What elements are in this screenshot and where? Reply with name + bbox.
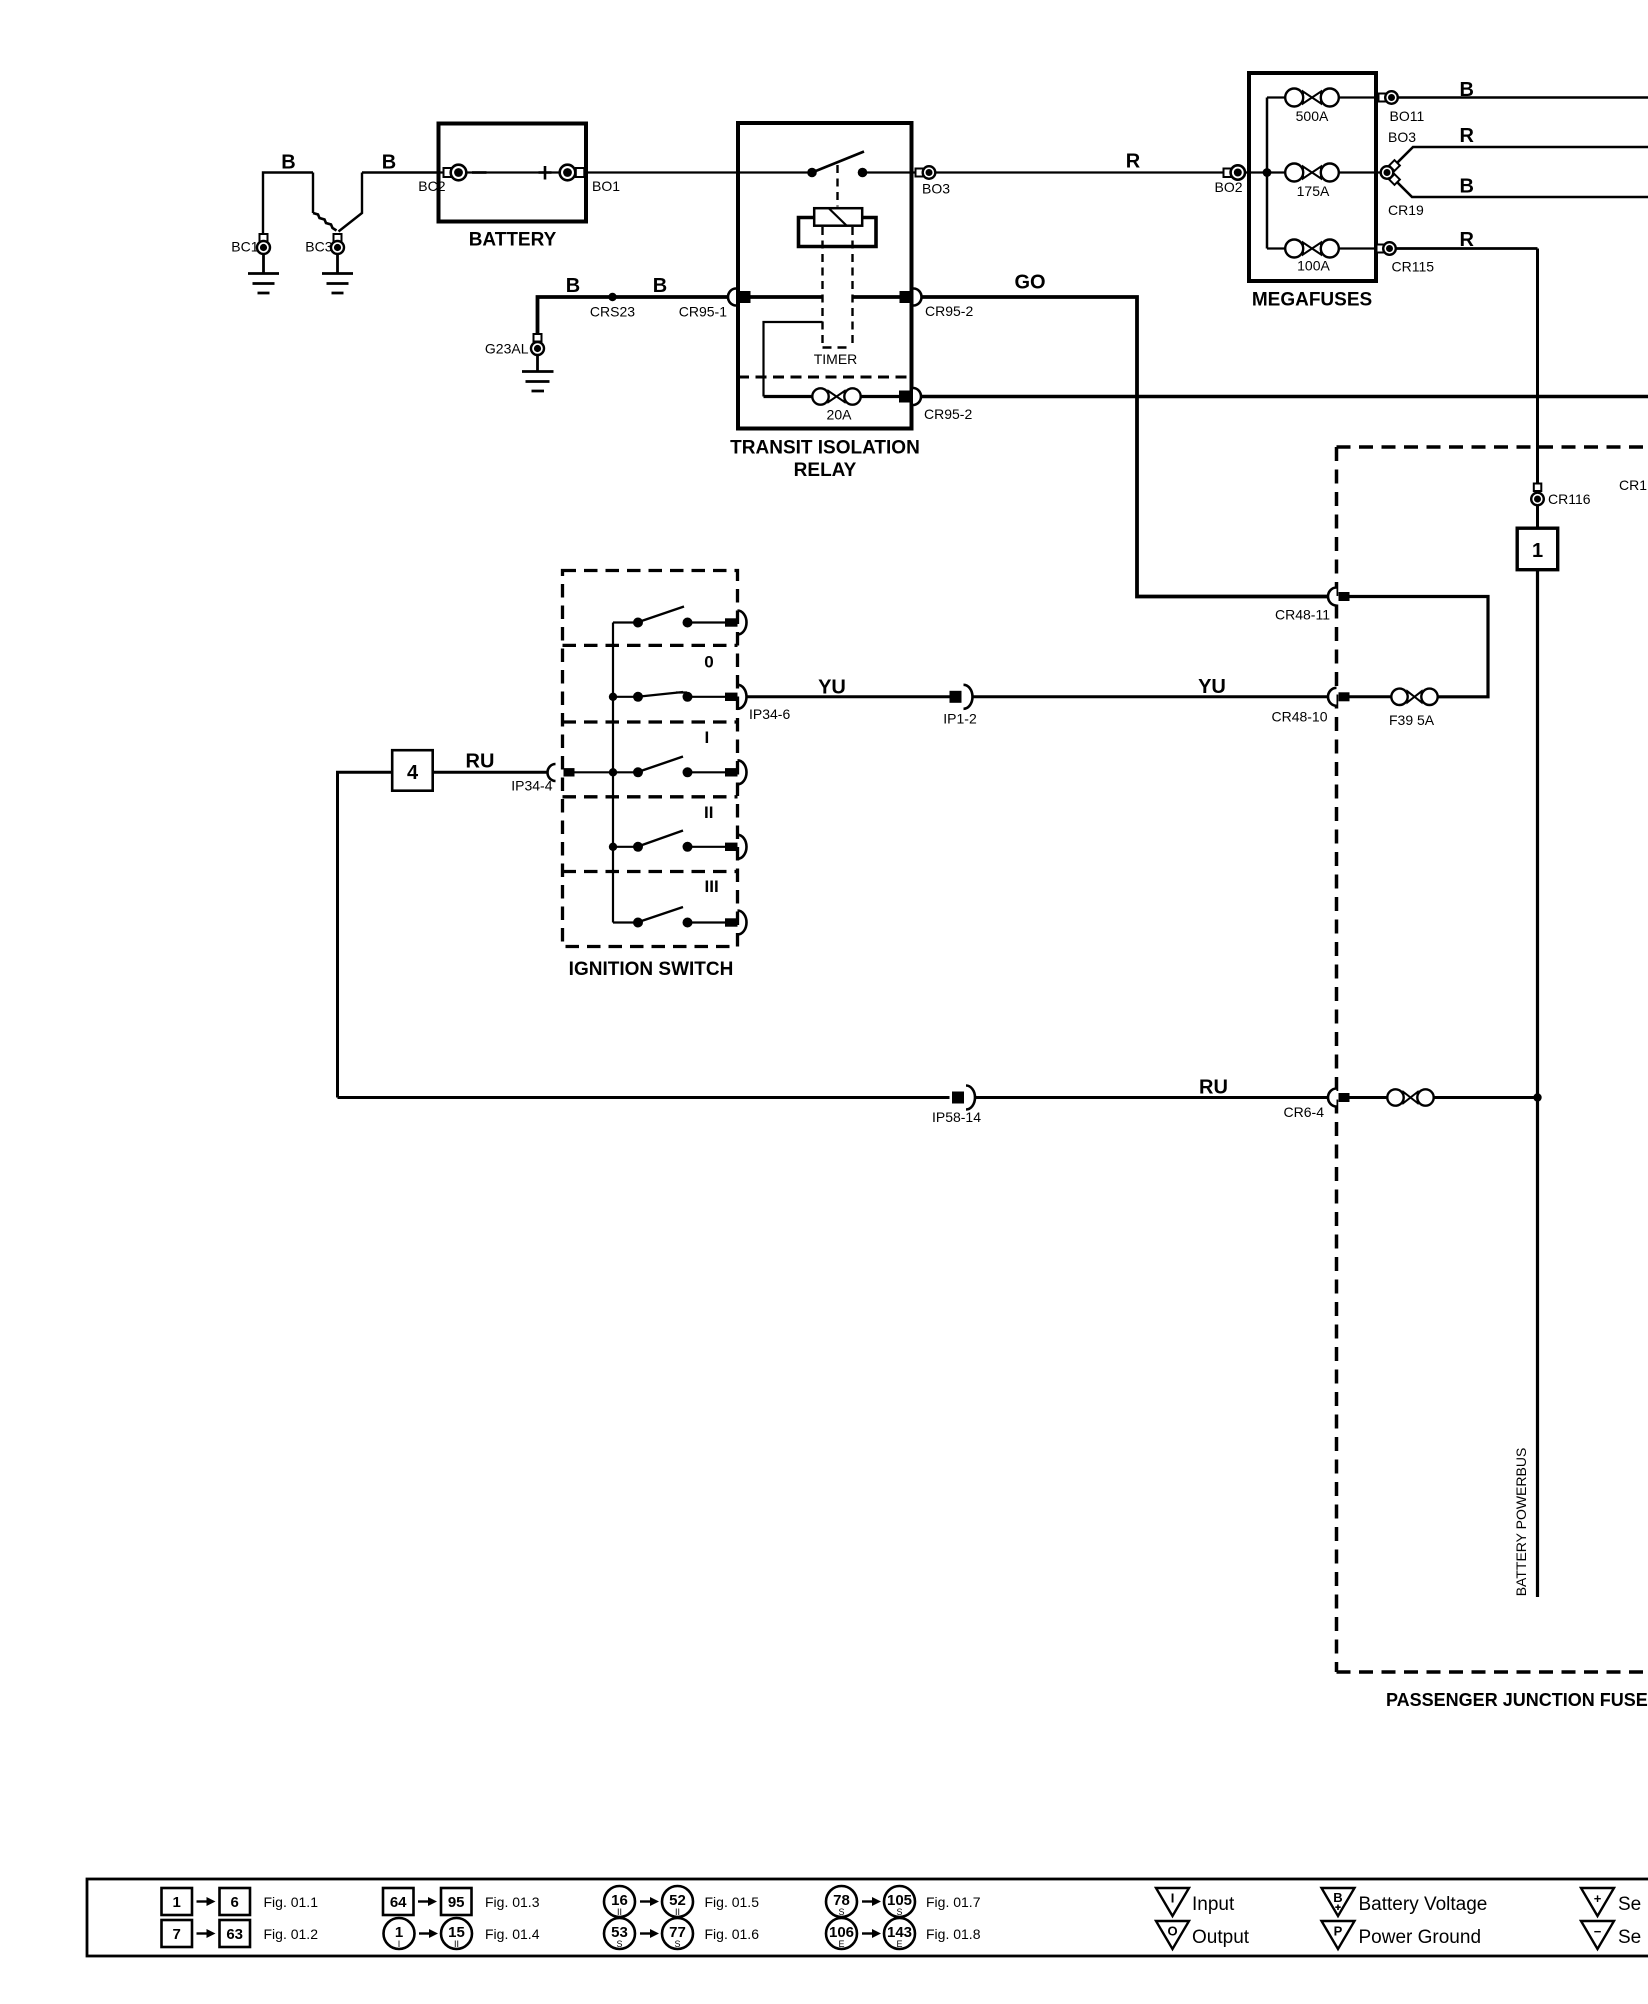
svg-text:S: S — [838, 1907, 844, 1917]
label IP1-2 — [943, 711, 977, 727]
svg-text:BO3: BO3 — [922, 181, 950, 197]
ignition common vertical wire — [612, 623, 614, 923]
relay yoke — [799, 218, 877, 247]
wire CR6-4 to fuse — [1350, 1096, 1388, 1099]
legend text Power Ground — [1359, 1927, 1482, 1948]
ignition row5 wires — [613, 921, 726, 923]
label BO11 — [1390, 108, 1425, 124]
svg-text:500A: 500A — [1296, 108, 1329, 124]
svg-text:S: S — [616, 1939, 622, 1949]
wire B BO11 to right edge — [1398, 96, 1648, 99]
svg-text:S: S — [674, 1939, 680, 1949]
wire fuse to powerbus junction — [1434, 1096, 1538, 1099]
ignition switch dashed box — [563, 571, 738, 947]
wire YU IP1-2 to CR48-10 — [973, 695, 1328, 698]
legend circle 106 E — [826, 1918, 857, 1949]
wire label RU — [466, 751, 495, 773]
svg-text:Fig. 01.5: Fig. 01.5 — [705, 1894, 760, 1910]
legend symbol Battery Voltage — [1322, 1888, 1355, 1916]
svg-text:G23AL: G23AL — [485, 341, 529, 357]
node box 4 — [392, 750, 433, 791]
label BO2 — [1214, 179, 1242, 195]
svg-text:B: B — [653, 275, 667, 297]
legend square 7 — [162, 1920, 193, 1947]
svg-text:II: II — [675, 1907, 680, 1917]
wire bus to fuse 500A — [1267, 96, 1286, 98]
label BC3 — [305, 239, 332, 255]
relay dashed separator — [738, 376, 912, 379]
wire label GO — [1014, 272, 1045, 294]
svg-text:20A: 20A — [827, 407, 853, 423]
wire main BO1 to relay — [588, 171, 738, 173]
legend circle 16 II — [604, 1886, 635, 1917]
wire bus to fuse 100A — [1267, 247, 1286, 249]
ignition row4 wires — [613, 846, 726, 848]
wire label B — [1460, 176, 1474, 198]
svg-text:I: I — [705, 728, 710, 747]
svg-text:RU: RU — [466, 751, 495, 773]
node box 1 — [1517, 528, 1558, 570]
label CR48-11 — [1275, 607, 1330, 623]
connector CR116 ring — [1531, 484, 1544, 506]
label F39 5A — [1389, 712, 1435, 728]
svg-text:IP58-14: IP58-14 — [932, 1109, 981, 1125]
svg-text:B: B — [382, 152, 396, 174]
svg-text:Fig. 01.1: Fig. 01.1 — [264, 1894, 319, 1910]
legend square 6 — [220, 1888, 251, 1915]
svg-text:−: − — [1594, 1924, 1602, 1939]
wire B from battery BC2 to ground split — [339, 173, 439, 232]
label G23AL — [485, 341, 529, 357]
wire timer tap to 20A fuse — [764, 322, 823, 397]
svg-text:CR48-11: CR48-11 — [1275, 607, 1330, 623]
wire box4 left leg down — [338, 772, 392, 1097]
legend circle 52 II — [662, 1886, 693, 1917]
legend box — [87, 1879, 1648, 1956]
connector CR95-1 — [728, 289, 751, 306]
ground at BC3 — [322, 254, 353, 293]
legend circle 77 S — [662, 1918, 693, 1949]
svg-text:CR19: CR19 — [1388, 202, 1424, 218]
svg-text:Fig. 01.6: Fig. 01.6 — [705, 1926, 760, 1942]
svg-text:CRS23: CRS23 — [590, 304, 635, 320]
legend arrow — [418, 1897, 437, 1906]
legend text Battery Voltage — [1359, 1894, 1488, 1915]
svg-text:MEGAFUSES: MEGAFUSES — [1252, 290, 1372, 311]
wire CR48-10 to F39 — [1350, 695, 1392, 698]
ignition divider II — [563, 795, 738, 798]
label CR115 — [1392, 259, 1435, 275]
svg-text:64: 64 — [390, 1894, 407, 1911]
svg-text:63: 63 — [226, 1926, 243, 1943]
connector BO11 ring — [1379, 91, 1398, 104]
svg-text:1: 1 — [173, 1894, 181, 1911]
svg-text:7: 7 — [173, 1926, 181, 1943]
legend text Output — [1192, 1927, 1250, 1948]
megafuses internal bus — [1266, 98, 1269, 249]
battery box — [439, 124, 587, 222]
svg-text:1: 1 — [1532, 540, 1543, 562]
row4 contacts and blade — [633, 831, 693, 852]
wire battery powerbus vertical — [1536, 571, 1539, 1597]
svg-text:Fig. 01.3: Fig. 01.3 — [485, 1894, 540, 1910]
row5 contacts and blade — [633, 907, 693, 928]
wire timer to CR95-2 — [853, 295, 902, 299]
label II — [704, 803, 713, 822]
wire R CR115 to powerbus — [1396, 247, 1538, 250]
row3 connector right — [725, 760, 747, 784]
fuse 20A — [812, 388, 860, 404]
label IP34-6 — [749, 706, 790, 722]
row3 contacts and blade — [633, 757, 693, 778]
connector IP1-2 — [950, 685, 973, 709]
label CR19 — [1388, 202, 1424, 218]
plus sign — [539, 166, 552, 180]
wire inside battery BC2 to BO1 — [438, 171, 588, 173]
connector CR115 ring — [1377, 242, 1396, 255]
svg-text:175A: 175A — [1297, 183, 1330, 199]
svg-text:BO3: BO3 — [1388, 129, 1416, 145]
svg-text:B: B — [566, 275, 580, 297]
wire label B left — [281, 152, 295, 174]
svg-text:F39 5A: F39 5A — [1389, 712, 1435, 728]
svg-text:E: E — [838, 1939, 844, 1949]
ignition row2 wires — [613, 696, 726, 698]
legend circle 53 S — [604, 1918, 635, 1949]
svg-text:0: 0 — [704, 653, 713, 672]
legend circle 143 E — [884, 1918, 915, 1949]
connector IP34-4 — [548, 764, 575, 781]
minus sign — [472, 171, 487, 174]
ignition row1 wires — [613, 621, 726, 623]
timer dashed outline — [823, 227, 853, 348]
dashed link switch to coil — [836, 165, 838, 207]
svg-text:R: R — [1460, 125, 1475, 147]
wire to 20A fuse — [764, 395, 813, 398]
label I — [705, 728, 710, 747]
row1 contacts and blade — [633, 607, 693, 628]
svg-text:100A: 100A — [1297, 258, 1330, 274]
legend symbol Input — [1156, 1888, 1189, 1916]
ignition row3 wires — [575, 771, 726, 773]
connector BO3 ring — [916, 166, 936, 179]
svg-text:4: 4 — [407, 762, 419, 784]
svg-text:Fig. 01.8: Fig. 01.8 — [926, 1926, 981, 1942]
relay switch contact right — [858, 168, 868, 178]
svg-text:CR48-10: CR48-10 — [1271, 709, 1327, 725]
legend circle 105 S — [884, 1886, 915, 1917]
passenger junction fusebox dashed outline — [1337, 447, 1648, 1672]
svg-text:RELAY: RELAY — [794, 460, 857, 481]
svg-text:BO11: BO11 — [1390, 108, 1425, 124]
wire BO3 to BO2 — [935, 171, 1224, 173]
wire CR48-11 to F39 loop — [1350, 597, 1489, 697]
row5 connector — [725, 911, 747, 935]
label 20A — [827, 407, 853, 423]
svg-text:6: 6 — [231, 1894, 239, 1911]
wire lower CR95-2 to right edge — [921, 395, 1648, 399]
svg-text:RU: RU — [1199, 1077, 1228, 1099]
wire fuse 100A to CR115 — [1339, 247, 1378, 249]
legend circle 15 II — [441, 1918, 472, 1949]
svg-text:B: B — [281, 152, 295, 174]
svg-text:IP34-4: IP34-4 — [511, 778, 552, 794]
svg-text:GO: GO — [1014, 272, 1045, 294]
label CR6-4 — [1284, 1104, 1325, 1120]
svg-text:CR95-2: CR95-2 — [925, 303, 973, 319]
connector BO1 battery positive terminal — [560, 165, 585, 181]
junction CRS23 — [608, 293, 616, 301]
label CR1 cut at edge — [1619, 477, 1647, 493]
legend text Se cut — [1618, 1927, 1641, 1948]
svg-text:Se: Se — [1618, 1927, 1641, 1948]
svg-text:Power Ground: Power Ground — [1359, 1927, 1482, 1948]
svg-text:I: I — [1171, 1891, 1175, 1906]
label MEGAFUSES — [1252, 290, 1372, 311]
svg-text:Fig. 01.4: Fig. 01.4 — [485, 1926, 540, 1942]
fuse at CR6-4 — [1387, 1089, 1433, 1105]
ignition divider III — [563, 870, 738, 873]
svg-text:O: O — [1167, 1924, 1177, 1939]
svg-text:R: R — [1460, 229, 1475, 251]
ignition divider I — [563, 720, 738, 723]
row2 contacts and blade — [633, 692, 693, 702]
svg-text:CR6-4: CR6-4 — [1284, 1104, 1325, 1120]
svg-text:S: S — [896, 1907, 902, 1917]
svg-text:B: B — [1333, 1890, 1342, 1905]
wire BO2 into megafuses — [1245, 171, 1267, 173]
wire bus to fuse 175A — [1267, 171, 1286, 173]
connector BC2 battery negative terminal — [444, 165, 467, 181]
label BATTERY — [469, 230, 557, 251]
label CR95-2 lower — [924, 406, 972, 422]
wire fuse 500A to BO11 — [1339, 96, 1379, 98]
svg-text:BATTERY: BATTERY — [469, 230, 557, 251]
svg-text:+: + — [1594, 1891, 1602, 1906]
row2 junction — [609, 693, 617, 701]
label BO1 — [592, 178, 620, 194]
row2 connector IP34-6 — [725, 685, 747, 709]
svg-text:CR95-2: CR95-2 — [924, 406, 972, 422]
legend arrow — [640, 1929, 659, 1938]
svg-text:II: II — [704, 803, 713, 822]
legend text Fig. 01.8 — [926, 1926, 981, 1942]
wire label B — [1460, 79, 1474, 101]
svg-text:B: B — [1460, 176, 1474, 198]
wire relay internal left to switch contact — [738, 171, 812, 173]
svg-text:Battery Voltage: Battery Voltage — [1359, 1894, 1488, 1915]
svg-text:II: II — [454, 1939, 459, 1949]
label 500A — [1296, 108, 1329, 124]
row3 junction — [609, 768, 617, 776]
legend symbol Power Ground — [1322, 1921, 1355, 1949]
svg-text:YU: YU — [818, 677, 846, 699]
svg-text:II: II — [617, 1907, 622, 1917]
fuse 500A — [1285, 89, 1339, 107]
wire fuse 175A to CR19 — [1339, 171, 1381, 173]
legend text Fig. 01.1 — [264, 1894, 319, 1910]
svg-text:IP34-6: IP34-6 — [749, 706, 790, 722]
svg-text:IP1-2: IP1-2 — [943, 711, 977, 727]
wire label RU — [1199, 1077, 1228, 1099]
label PASSENGER JUNCTION FUSEBOX — [1386, 1690, 1648, 1710]
svg-text:Output: Output — [1192, 1927, 1250, 1948]
wire CR116 to node 1 — [1536, 506, 1539, 528]
wire RU IP58-14 to CR6-4 — [976, 1096, 1329, 1099]
wire label YU — [1198, 676, 1226, 698]
label TRANSIT ISOLATION RELAY — [730, 438, 920, 482]
svg-text:TRANSIT ISOLATION: TRANSIT ISOLATION — [730, 438, 920, 459]
svg-text:IGNITION SWITCH: IGNITION SWITCH — [569, 959, 734, 980]
junction on bus — [1263, 168, 1272, 177]
svg-text:Input: Input — [1192, 1894, 1235, 1915]
svg-text:E: E — [896, 1939, 902, 1949]
connector G23AL ring terminal — [531, 334, 544, 355]
svg-text:BC3: BC3 — [305, 239, 332, 255]
legend arrow — [862, 1929, 881, 1938]
svg-text:BO1: BO1 — [592, 178, 620, 194]
connector BC1 ring terminal — [257, 234, 270, 254]
svg-text:BO2: BO2 — [1214, 179, 1242, 195]
svg-text:III: III — [705, 877, 719, 896]
svg-text:CR115: CR115 — [1392, 259, 1435, 275]
connector CR19 ring — [1381, 160, 1400, 185]
legend arrow — [197, 1929, 216, 1938]
label IGNITION SWITCH — [569, 959, 734, 980]
relay switch blade — [815, 152, 865, 172]
legend square 95 — [441, 1888, 472, 1915]
row4 junction — [609, 843, 617, 851]
wire label B — [653, 275, 667, 297]
connector IP58-14 — [952, 1086, 975, 1110]
wire label R — [1460, 125, 1475, 147]
label 175A — [1297, 183, 1330, 199]
label CRS23 — [590, 304, 635, 320]
svg-text:P: P — [1334, 1924, 1343, 1939]
fuse F39 5A — [1391, 689, 1437, 705]
svg-text:PASSENGER JUNCTION FUSEBOX: PASSENGER JUNCTION FUSEBOX — [1386, 1690, 1648, 1710]
legend text Input — [1192, 1894, 1235, 1915]
svg-text:CR116: CR116 — [1548, 491, 1591, 507]
ground at G23AL — [522, 355, 554, 391]
relay coil — [814, 208, 862, 226]
legend symbol plus — [1581, 1888, 1614, 1916]
legend circle 78 S — [826, 1886, 857, 1917]
legend text Se cut — [1618, 1894, 1641, 1915]
connector CR95-2 lower — [899, 388, 921, 405]
svg-text:CR1: CR1 — [1619, 477, 1647, 493]
wire CR95-1 to timer — [750, 295, 823, 299]
label III — [705, 877, 719, 896]
junction on powerbus — [1533, 1093, 1541, 1101]
svg-text:R: R — [1126, 151, 1141, 173]
svg-text:BC2: BC2 — [418, 178, 445, 194]
svg-text:CR95-1: CR95-1 — [679, 304, 727, 320]
wire YU IP34-6 to IP1-2 — [747, 695, 950, 698]
wire switch contact to BO3 — [863, 171, 916, 173]
relay switch contact left — [807, 168, 817, 178]
label CR48-10 — [1271, 709, 1327, 725]
label IP34-4 — [511, 778, 552, 794]
legend text Fig. 01.2 — [264, 1926, 319, 1942]
wire label B right — [382, 152, 396, 174]
connector CR6-4 — [1328, 1089, 1350, 1107]
wire GO CR95-2 to CR48-11 — [923, 297, 1330, 597]
svg-text:Fig. 01.2: Fig. 01.2 — [264, 1926, 319, 1942]
svg-text:B: B — [1460, 79, 1474, 101]
svg-text:YU: YU — [1198, 676, 1226, 698]
row4 connector — [725, 835, 747, 859]
label BO3 — [922, 181, 950, 197]
connector CR48-10 — [1328, 688, 1350, 706]
wire powerbus vertical upper — [1536, 249, 1539, 485]
legend arrow — [640, 1897, 659, 1906]
wire B ground leg to CR95-1 — [538, 297, 729, 334]
wire 20A fuse to lower CR95-2 — [861, 395, 900, 398]
fuse 175A — [1285, 164, 1339, 182]
label CR95-2 upper — [925, 303, 973, 319]
label CR95-1 — [679, 304, 727, 320]
legend text Fig. 01.6 — [705, 1926, 760, 1942]
wire B CR19 lower branch to right edge — [1398, 183, 1648, 198]
label TIMER — [814, 351, 858, 367]
legend square 1 — [162, 1888, 193, 1915]
svg-text:BATTERY POWERBUS: BATTERY POWERBUS — [1513, 1448, 1529, 1597]
wire label R — [1460, 229, 1475, 251]
wire label YU — [818, 677, 846, 699]
svg-text:I: I — [398, 1939, 401, 1949]
legend symbol Output — [1156, 1921, 1189, 1949]
wire label R — [1126, 151, 1141, 173]
legend circle 1 I — [384, 1918, 415, 1949]
legend arrow — [197, 1897, 216, 1906]
svg-text:TIMER: TIMER — [814, 351, 858, 367]
label BC1 — [231, 239, 258, 255]
svg-text:BC1: BC1 — [231, 239, 258, 255]
label 100A — [1297, 258, 1330, 274]
legend text Fig. 01.5 — [705, 1894, 760, 1910]
legend text Fig. 01.4 — [485, 1926, 540, 1942]
legend symbol minus — [1581, 1921, 1614, 1949]
legend arrow — [862, 1897, 881, 1906]
svg-text:95: 95 — [448, 1894, 465, 1911]
connector BO2 ring — [1224, 165, 1246, 179]
wire B from BC3 crimp to BC1 — [263, 173, 337, 235]
transit isolation relay box — [738, 123, 912, 429]
label BC2 — [418, 178, 445, 194]
legend text Fig. 01.7 — [926, 1894, 981, 1910]
wire R CR19 upper branch to right edge — [1398, 147, 1648, 163]
label 0 — [704, 653, 713, 672]
legend square 63 — [220, 1920, 251, 1947]
svg-text:Fig. 01.7: Fig. 01.7 — [926, 1894, 981, 1910]
connector CR95-2 upper — [900, 289, 922, 306]
svg-text:Se: Se — [1618, 1894, 1641, 1915]
label BO3 at CR19 — [1388, 129, 1416, 145]
label IP58-14 — [932, 1109, 981, 1125]
wire label B — [566, 275, 580, 297]
row1 connector — [725, 611, 747, 635]
connector CR48-11 — [1328, 588, 1350, 606]
label BATTERY POWERBUS vertical — [1513, 1448, 1529, 1597]
legend square 64 — [383, 1888, 414, 1915]
legend text Fig. 01.3 — [485, 1894, 540, 1910]
label CR116 — [1548, 491, 1591, 507]
legend arrow — [419, 1929, 438, 1938]
fuse 100A — [1285, 240, 1339, 258]
ground at BC1 — [248, 254, 279, 293]
connector BC3 ring terminal — [331, 234, 344, 254]
